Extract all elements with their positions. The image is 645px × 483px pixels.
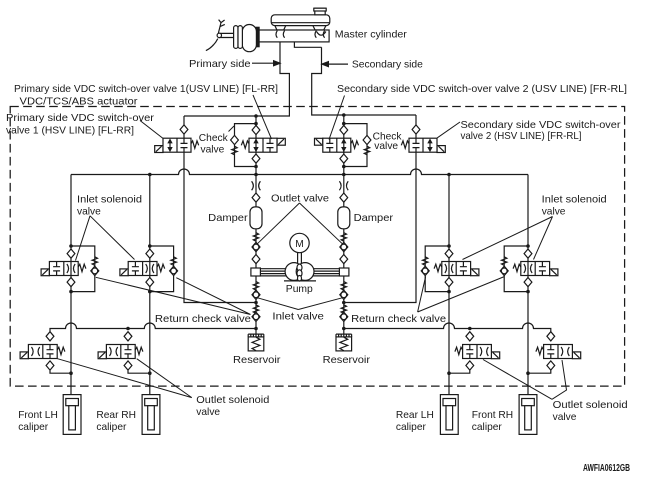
- wire HSV2 line down to pump suction node: [344, 115, 416, 303]
- arrow secondary side: [327, 63, 348, 65]
- pump piston spring (right): [341, 282, 346, 291]
- svg-text:Secondary side VDC switch-over: Secondary side VDC switch-over: [461, 120, 622, 131]
- svg-text:Outlet valve: Outlet valve: [271, 193, 329, 204]
- motor M1: [290, 233, 309, 252]
- svg-text:Inlet valve: Inlet valve: [272, 312, 324, 323]
- outlet solenoid valve 2 (RR): [98, 332, 143, 370]
- wire right reservoir rail with hops over caliper lines: [344, 323, 551, 332]
- svg-text:Master cylinder: Master cylinder: [335, 30, 408, 41]
- pump inlet check valve (right): [340, 290, 348, 299]
- damper (left): [250, 207, 262, 229]
- wire outlet valve 3 lower connector: [449, 370, 470, 373]
- pump: [251, 253, 349, 281]
- svg-text:Front RH: Front RH: [472, 410, 513, 421]
- return check valve (right): [341, 305, 346, 314]
- svg-text:valve: valve: [553, 412, 577, 423]
- pump outlet check valve (left): [252, 242, 260, 251]
- svg-text:Rear RH: Rear RH: [96, 410, 136, 421]
- svg-text:valve: valve: [542, 207, 566, 218]
- damper (right): [338, 207, 350, 229]
- wire cross rail y=174.5 with hops over HSV lines: [71, 169, 528, 175]
- pump piston spring (left): [253, 282, 258, 291]
- leader: USV1 label: [253, 95, 272, 139]
- leader: inlet valve label: [258, 298, 343, 310]
- svg-text:Front LH: Front LH: [18, 410, 58, 421]
- svg-text:Primary side: Primary side: [189, 59, 251, 70]
- svg-text:Damper: Damper: [208, 213, 248, 224]
- reservoir (right): [336, 334, 352, 351]
- svg-text:Reservoir: Reservoir: [233, 355, 281, 366]
- svg-text:valve: valve: [77, 207, 101, 218]
- svg-text:caliper: caliper: [96, 422, 127, 433]
- svg-text:Outlet solenoid: Outlet solenoid: [196, 395, 269, 406]
- leader: left outlet solenoid valve label: [58, 359, 192, 398]
- arrow primary side: [252, 62, 275, 64]
- inlet solenoid valve 2 (RR): [120, 249, 165, 287]
- outlet valve orifice (left): [252, 181, 261, 190]
- svg-text:Primary side VDC switch-over: Primary side VDC switch-over: [6, 113, 155, 124]
- inlet valve 4 bypass spring + return check valve: [502, 257, 507, 266]
- wire outlet valve 2 lower connector: [128, 370, 150, 373]
- outlet solenoid valve 3 (RL): [455, 332, 500, 370]
- leader: left check valve label: [229, 126, 235, 132]
- leader: HSV1 label: [140, 121, 163, 139]
- wire USV2 / right pump column vertical: [343, 115, 345, 334]
- pump inlet check valve (left): [252, 290, 260, 299]
- outlet solenoid valve 1 (FL): [20, 332, 65, 370]
- wire inlet valve 4 bypass: [504, 246, 528, 292]
- master cylinder assembly: [206, 8, 330, 52]
- svg-text:caliper: caliper: [18, 422, 49, 433]
- front RH caliper: [519, 395, 537, 435]
- inlet solenoid valve 4 (FR): [513, 249, 558, 287]
- svg-text:Rear LH: Rear LH: [396, 410, 434, 421]
- leader: right inlet solenoid valve label: [463, 217, 553, 260]
- leader: right outlet solenoid valve label: [483, 360, 567, 400]
- svg-text:valve: valve: [374, 141, 398, 152]
- svg-text:valve 1 (HSV LINE) [FL-RR]: valve 1 (HSV LINE) [FL-RR]: [6, 126, 134, 137]
- wire outlet valve 1 lower connector: [50, 370, 71, 373]
- svg-text:Inlet solenoid: Inlet solenoid: [542, 194, 607, 205]
- leader: USV2 label: [329, 96, 345, 140]
- leader: left inlet solenoid valve label: [76, 216, 135, 261]
- wire right channel FR vertical: [527, 175, 529, 399]
- return check valve (left): [253, 305, 258, 314]
- inlet solenoid valve 1 (FL): [41, 249, 86, 287]
- leader: right return check valve label: [418, 277, 505, 313]
- svg-text:Pump: Pump: [286, 284, 313, 295]
- leader: left return check valve label: [96, 277, 251, 314]
- valve HSV2: secondary side VDC switch-over valve 2 (HSV LINE): [401, 125, 445, 153]
- svg-text:Outlet solenoid: Outlet solenoid: [553, 400, 628, 411]
- svg-text:valve 2 (HSV LINE) [FR-RL]: valve 2 (HSV LINE) [FR-RL]: [461, 131, 582, 142]
- svg-text:Reservoir: Reservoir: [323, 355, 371, 366]
- wire USV1 / left pump column vertical: [255, 116, 257, 334]
- leader: HSV2 label: [437, 122, 460, 138]
- valve HSV1: primary side VDC switch-over valve 1 (HSV LINE): [155, 125, 199, 153]
- wire left channel RR vertical: [149, 175, 151, 399]
- outlet solenoid valve 4 (FR): [536, 332, 581, 370]
- wire HSV1 line down to pump suction node: [184, 116, 256, 303]
- wire right channel RL vertical: [448, 175, 450, 399]
- svg-text:Secondary side: Secondary side: [352, 59, 423, 70]
- svg-text:Damper: Damper: [354, 213, 394, 224]
- pump outlet check valve (right): [340, 242, 348, 251]
- inlet valve 1 bypass spring + return check valve: [92, 257, 97, 266]
- svg-text:valve: valve: [201, 144, 225, 155]
- rear LH caliper: [440, 395, 458, 435]
- svg-text:caliper: caliper: [472, 422, 503, 433]
- wire left reservoir rail with hops over caliper lines: [50, 323, 256, 332]
- svg-text:Return check valve: Return check valve: [351, 314, 446, 325]
- svg-text:M: M: [295, 239, 304, 250]
- wire inlet valve 1 bypass: [71, 246, 95, 292]
- wire USV1 check valve bypass: [235, 124, 257, 167]
- inlet valve 3 bypass spring + return check valve: [423, 257, 428, 266]
- svg-text:Inlet solenoid: Inlet solenoid: [77, 194, 142, 205]
- wire primary side feed from master cylinder to HSV1/USV1 rail: [184, 42, 289, 116]
- svg-text:Secondary side VDC switch-over: Secondary side VDC switch-over valve 2 (…: [337, 84, 627, 95]
- inlet valve 2 bypass spring + return check valve: [171, 257, 176, 266]
- svg-text:caliper: caliper: [396, 422, 427, 433]
- valve USV2: secondary side VDC switch-over valve 2 (USV LINE): [315, 125, 359, 163]
- reservoir (left): [248, 334, 264, 351]
- wire secondary side feed from master cylinder to USV2/HSV2 rail: [312, 47, 416, 115]
- actuator dashed border: [10, 107, 624, 387]
- wire USV2 check valve bypass: [344, 124, 367, 167]
- svg-text:valve: valve: [196, 407, 220, 418]
- svg-text:Return check valve: Return check valve: [155, 314, 251, 325]
- rear RH caliper: [142, 395, 160, 435]
- front LH caliper: [63, 395, 81, 435]
- valve USV1: primary side VDC switch-over valve 1 (USV LINE): [241, 125, 285, 163]
- wire outlet valve 4 lower connector: [528, 370, 551, 373]
- svg-text:Check: Check: [199, 133, 229, 144]
- wire inlet valve 2 bypass: [150, 246, 174, 292]
- inlet solenoid valve 3 (RL): [434, 249, 479, 287]
- wire inlet valve 3 bypass: [425, 246, 449, 292]
- outlet valve orifice (right): [339, 181, 348, 190]
- svg-text:AWFIA0612GB: AWFIA0612GB: [583, 463, 630, 474]
- check valve (primary side): [231, 135, 239, 144]
- svg-text:Primary side VDC switch-over v: Primary side VDC switch-over valve 1(USV…: [14, 84, 278, 95]
- svg-text:VDC/TCS/ABS actuator: VDC/TCS/ABS actuator: [20, 97, 139, 108]
- check valve (secondary side): [363, 135, 371, 144]
- wire left channel FL vertical: [70, 175, 72, 399]
- leader: outlet valve label: [257, 203, 343, 244]
